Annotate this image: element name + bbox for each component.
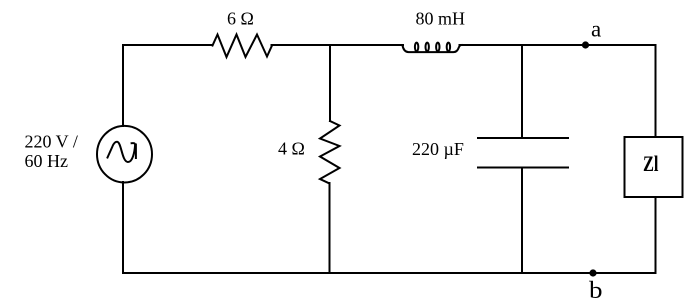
resistor R2 4 ohm zigzag [320, 121, 340, 183]
load box Zl [625, 137, 683, 197]
wire branch capacitor vertical lower [521, 168, 523, 274]
inductor L1 loop 4 [447, 43, 450, 52]
wire branch 4 ohm vertical upper [329, 45, 331, 121]
inductor L1 80 mH body [403, 45, 462, 52]
inductor L1 loop 1 [415, 43, 418, 52]
wire top-right horizontal [460, 44, 656, 46]
svg-text:220 V /: 220 V / [25, 132, 78, 152]
svg-text:b: b [589, 278, 603, 304]
capacitor C1 top plate [478, 137, 568, 139]
inductor L1 loop 3 [436, 43, 439, 52]
node a junction dot [582, 41, 589, 48]
node b junction dot [589, 269, 596, 276]
wire top-left horizontal [123, 44, 213, 46]
resistor R1 6 ohm zigzag [213, 35, 273, 58]
wire right vertical lower [655, 197, 657, 273]
wire bottom horizontal [123, 272, 656, 274]
wire branch capacitor vertical upper [521, 45, 523, 138]
inductor L1 loop 2 [426, 43, 429, 52]
wire right vertical upper [655, 45, 657, 137]
AC source V1 circle [97, 126, 152, 183]
wire left vertical upper [122, 45, 124, 126]
AC source V1 sine symbol [108, 142, 136, 162]
svg-text:Zl: Zl [643, 151, 659, 176]
capacitor C1 bottom plate [478, 167, 568, 169]
wire left vertical lower [122, 182, 124, 273]
svg-text:60 Hz: 60 Hz [25, 151, 69, 171]
wire branch 4 ohm vertical lower [329, 183, 331, 273]
wire top-middle horizontal [272, 44, 404, 46]
svg-text:6 Ω: 6 Ω [227, 9, 254, 29]
svg-text:80 mH: 80 mH [416, 9, 466, 29]
svg-text:a: a [591, 17, 601, 42]
svg-text:4 Ω: 4 Ω [278, 139, 305, 159]
svg-text:220 µF: 220 µF [412, 139, 464, 159]
